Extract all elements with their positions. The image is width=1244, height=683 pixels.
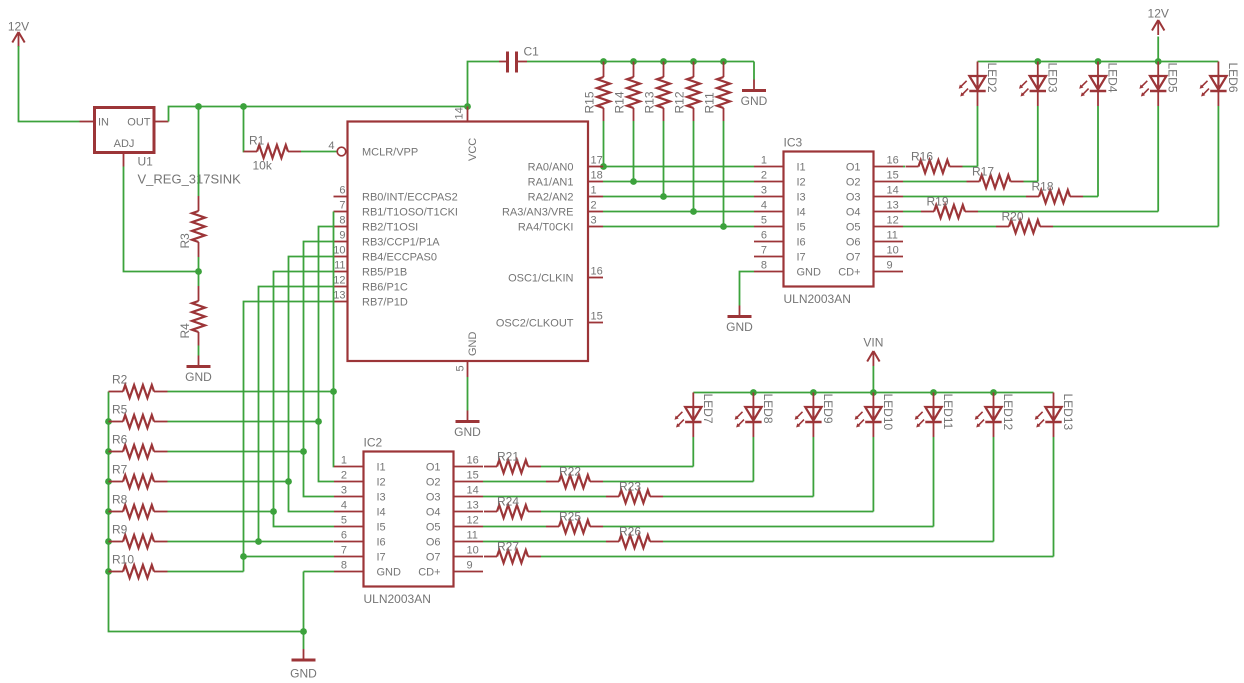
svg-text:9: 9 [339, 230, 345, 242]
wire R17 to LED3 [1024, 181, 1038, 183]
wire RB5 to IC2 I5 [274, 272, 335, 527]
svg-text:RB7/P1D: RB7/P1D [362, 297, 408, 309]
wire PIC GND pin [467, 377, 469, 411]
junction bottom rail [870, 389, 877, 396]
junction R6/RB3 [300, 448, 307, 455]
supply +12V (top right) [1148, 7, 1169, 36]
wire IC3 O4 to R19 [903, 211, 921, 213]
junction bottom rail [810, 389, 817, 396]
wire IC2 output to R26 [483, 541, 606, 543]
svg-text:15: 15 [591, 311, 603, 323]
junction rail R12 [690, 58, 697, 65]
wire RA0 row to IC3 [603, 166, 754, 168]
wire IC3 O3 to R18 [903, 196, 1026, 198]
svg-text:8: 8 [339, 215, 345, 227]
svg-text:GND: GND [741, 94, 768, 108]
wire LED6 cathode [1217, 106, 1219, 227]
svg-text:I7: I7 [797, 252, 806, 264]
svg-text:R15: R15 [583, 91, 597, 113]
junction left bus [105, 508, 112, 515]
svg-text:14: 14 [467, 485, 479, 497]
svg-text:RB3/CCP1/P1A: RB3/CCP1/P1A [362, 237, 440, 249]
wire 12V to U1 IN [19, 46, 80, 122]
resistor R24 [484, 495, 541, 519]
svg-text:I1: I1 [797, 162, 806, 174]
wire VIN to LED rail [872, 366, 874, 393]
svg-text:12V: 12V [1148, 7, 1169, 21]
wire R4 to ground [198, 346, 200, 356]
wire LED8 cathode [752, 437, 754, 482]
wire R23 to LED [663, 496, 813, 498]
driver IC3 ULN2003AN [754, 136, 903, 307]
svg-text:13: 13 [333, 290, 345, 302]
wire R13 to row [663, 121, 665, 197]
junction VCC / C1 [464, 103, 471, 110]
wire R10 row [168, 571, 244, 573]
junction ADJ node [195, 268, 202, 275]
svg-text:5: 5 [761, 215, 767, 227]
svg-text:R4: R4 [178, 323, 192, 339]
wire LED11 cathode [933, 437, 935, 527]
wire RA2 row to IC3 [603, 196, 754, 198]
svg-text:O1: O1 [426, 462, 441, 474]
LED11 [915, 393, 955, 438]
svg-text:I3: I3 [377, 492, 386, 504]
ground below IC3 [726, 306, 753, 335]
svg-text:17: 17 [591, 155, 603, 167]
svg-text:9: 9 [467, 560, 473, 572]
svg-text:10: 10 [333, 245, 345, 257]
wire R10 row up to RB7 node [243, 557, 245, 572]
driver IC2 ULN2003AN [334, 436, 483, 607]
capacitor C1 [499, 45, 539, 73]
svg-text:LED13: LED13 [1061, 394, 1075, 431]
svg-text:14: 14 [887, 185, 899, 197]
wire trunk to R1 [243, 107, 246, 152]
svg-text:O1: O1 [846, 162, 861, 174]
svg-text:RA1/AN1: RA1/AN1 [528, 177, 574, 189]
wire R6 row [168, 451, 304, 453]
svg-text:RA2/AN2: RA2/AN2 [528, 192, 574, 204]
svg-text:R27: R27 [497, 540, 519, 554]
svg-text:12: 12 [887, 215, 899, 227]
svg-text:R9: R9 [112, 523, 128, 537]
svg-text:1: 1 [761, 155, 767, 167]
svg-text:R12: R12 [673, 91, 687, 113]
resistor R15 [583, 62, 611, 122]
svg-text:R14: R14 [613, 91, 627, 113]
svg-text:R13: R13 [643, 91, 657, 113]
svg-text:R18: R18 [1032, 180, 1054, 194]
wire IC3 O1 to R16 [903, 166, 905, 168]
svg-text:R19: R19 [927, 195, 949, 209]
wire RA1 row to IC3 [603, 181, 754, 183]
svg-text:IC3: IC3 [784, 136, 803, 150]
svg-text:ULN2003AN: ULN2003AN [364, 592, 431, 606]
svg-text:I3: I3 [797, 192, 806, 204]
svg-text:2: 2 [341, 470, 347, 482]
resistor R1 10k [244, 134, 302, 173]
svg-text:C1: C1 [524, 45, 540, 59]
LED5 [1139, 62, 1179, 107]
resistor R26 [606, 525, 663, 549]
wire R22 to LED [603, 481, 753, 483]
LED8 [735, 393, 775, 438]
wire R8 row [168, 511, 274, 513]
svg-text:10: 10 [887, 245, 899, 257]
svg-text:O7: O7 [846, 252, 861, 264]
svg-text:3: 3 [341, 485, 347, 497]
junction R8/RB5 [270, 508, 277, 515]
wire RA4 row to IC3 [603, 226, 754, 228]
wire LED13 cathode [1053, 437, 1055, 557]
svg-text:CD+: CD+ [418, 567, 440, 579]
resistor R12 [673, 62, 701, 122]
svg-text:O4: O4 [426, 507, 441, 519]
wire R11 to row [723, 121, 725, 227]
junction top rail [1095, 58, 1102, 65]
junction R2/RB1 [330, 388, 337, 395]
wire IC3 GND to ground [740, 272, 755, 306]
svg-text:11: 11 [467, 530, 478, 542]
supply VIN [863, 336, 883, 367]
wire LED3 cathode [1037, 106, 1039, 182]
svg-text:O2: O2 [846, 177, 861, 189]
svg-text:ULN2003AN: ULN2003AN [784, 292, 851, 306]
svg-text:VIN: VIN [863, 336, 883, 350]
svg-text:VCC: VCC [467, 138, 479, 161]
svg-text:RB0/INT/ECCPAS2: RB0/INT/ECCPAS2 [362, 192, 458, 204]
svg-text:IN: IN [98, 117, 109, 129]
junction ground bus [300, 628, 307, 635]
junction top rail [1155, 58, 1162, 65]
svg-text:O3: O3 [426, 492, 441, 504]
svg-text:R16: R16 [911, 150, 933, 164]
resistor R4 [178, 286, 205, 346]
svg-text:GND: GND [467, 332, 479, 357]
wire LED5 cathode [1157, 106, 1159, 212]
wire RB6 to R9 row [259, 287, 334, 542]
wire LED9 cathode [812, 437, 814, 497]
svg-text:R22: R22 [559, 465, 581, 479]
wire RA3 row to IC3 [603, 211, 754, 213]
svg-text:R7: R7 [112, 463, 128, 477]
junction R10/RB7 [240, 553, 247, 560]
junction left bus [105, 418, 112, 425]
wire VCC to C1 [468, 62, 500, 107]
svg-text:R23: R23 [619, 480, 641, 494]
resistor R21 [484, 450, 541, 474]
junction rail R11 [720, 58, 727, 65]
junction R15 row [600, 163, 607, 170]
svg-text:O3: O3 [846, 192, 861, 204]
svg-text:LED11: LED11 [941, 394, 955, 430]
svg-text:6: 6 [761, 230, 767, 242]
resistor R22 [546, 465, 603, 489]
LED9 [795, 393, 835, 438]
junction bottom rail [750, 389, 757, 396]
svg-text:6: 6 [341, 530, 347, 542]
svg-text:RB6/P1C: RB6/P1C [362, 282, 408, 294]
svg-text:13: 13 [887, 200, 899, 212]
svg-text:I5: I5 [377, 522, 386, 534]
wire IC3 O2 to R17 [903, 181, 967, 183]
LED12 [975, 393, 1015, 438]
svg-text:1: 1 [341, 455, 347, 467]
junction R7/RB4 [285, 478, 292, 485]
ground below PIC [454, 411, 481, 440]
svg-text:8: 8 [341, 560, 347, 572]
wire top LED rail [978, 61, 1219, 63]
wire R3 to R4 node [198, 257, 200, 286]
svg-text:8: 8 [761, 260, 767, 272]
junction left bus [105, 448, 112, 455]
wire U1 ADJ to R3/R4 node [124, 167, 199, 272]
resistor R18 [1026, 180, 1083, 204]
wire bottom LED rail [693, 392, 1053, 394]
svg-text:3: 3 [761, 185, 767, 197]
svg-text:R5: R5 [112, 403, 128, 417]
svg-text:R21: R21 [497, 450, 519, 464]
svg-text:O6: O6 [426, 537, 441, 549]
wire 12V to LED rail [1157, 37, 1159, 62]
svg-text:13: 13 [467, 500, 479, 512]
svg-text:RB4/ECCPAS0: RB4/ECCPAS0 [362, 252, 437, 264]
LED3 [1019, 62, 1059, 107]
svg-text:R8: R8 [112, 493, 128, 507]
wire LED7 cathode [692, 437, 694, 467]
microcontroller IC1 PIC [328, 107, 603, 378]
svg-text:I4: I4 [377, 507, 386, 519]
junction left bus [105, 568, 112, 575]
svg-text:GND: GND [797, 267, 822, 279]
wire U1 OUT to VCC trunk [169, 107, 468, 122]
svg-text:LED6: LED6 [1226, 63, 1240, 93]
svg-text:O5: O5 [426, 522, 441, 534]
ground top rail [741, 80, 768, 109]
svg-text:R17: R17 [972, 165, 994, 179]
svg-text:12: 12 [333, 275, 345, 287]
svg-text:RA4/T0CKI: RA4/T0CKI [518, 222, 574, 234]
svg-text:15: 15 [467, 470, 479, 482]
wire left bus [109, 392, 304, 632]
svg-text:12: 12 [467, 515, 479, 527]
svg-text:16: 16 [887, 155, 899, 167]
wire R21 to LED [541, 466, 693, 468]
svg-text:LED4: LED4 [1106, 63, 1120, 93]
svg-text:16: 16 [467, 455, 479, 467]
svg-text:3: 3 [591, 215, 597, 227]
wire R5 row [168, 421, 319, 423]
resistor R3 [178, 196, 205, 257]
wire R1 to MCLR pin 4 [301, 151, 337, 153]
wire LED2 cathode [977, 106, 979, 167]
svg-text:R24: R24 [497, 495, 519, 509]
ground bottom [290, 649, 317, 681]
svg-text:I2: I2 [377, 477, 386, 489]
LED4 [1079, 62, 1119, 107]
wire R12 to row [693, 121, 695, 212]
junction rail R15 [600, 58, 607, 65]
svg-text:2: 2 [761, 170, 767, 182]
svg-text:4: 4 [341, 500, 347, 512]
wire R27 to LED [541, 556, 1054, 558]
svg-text:14: 14 [454, 107, 466, 119]
junction left bus [105, 478, 112, 485]
junction R3 branch [195, 103, 202, 110]
resistor R6 [109, 433, 168, 459]
svg-text:LED7: LED7 [701, 394, 715, 424]
svg-text:4: 4 [761, 200, 767, 212]
svg-text:R1: R1 [249, 134, 265, 148]
wire R14 to row [633, 121, 635, 182]
svg-text:RA3/AN3/VRE: RA3/AN3/VRE [502, 207, 574, 219]
svg-text:GND: GND [185, 370, 212, 384]
LED10 [855, 393, 895, 438]
wire R19 to LED5 [978, 211, 1158, 213]
wire R2 row [168, 391, 334, 393]
svg-text:I2: I2 [797, 177, 806, 189]
wire LED12 cathode [993, 437, 995, 542]
svg-text:R6: R6 [112, 433, 128, 447]
svg-text:R20: R20 [1002, 210, 1024, 224]
svg-text:LED10: LED10 [881, 394, 895, 431]
svg-text:11: 11 [334, 260, 345, 272]
junction R9/RB6 [255, 538, 262, 545]
svg-text:6: 6 [339, 185, 345, 197]
wire IC2 output to R25 [483, 526, 546, 528]
svg-text:GND: GND [290, 667, 317, 681]
junction bottom rail [990, 389, 997, 396]
junction rail R13 [660, 58, 667, 65]
wire R18 to LED4 [1083, 196, 1098, 198]
svg-text:I5: I5 [797, 222, 806, 234]
svg-text:O4: O4 [846, 207, 861, 219]
resistor R17 [967, 165, 1024, 189]
svg-text:O2: O2 [426, 477, 441, 489]
LED13 [1035, 393, 1075, 438]
svg-text:LED3: LED3 [1045, 63, 1059, 93]
svg-text:R11: R11 [703, 92, 717, 113]
svg-text:7: 7 [341, 545, 347, 557]
junction R5/RB2 [315, 418, 322, 425]
svg-text:RB2/T1OSI: RB2/T1OSI [362, 222, 418, 234]
svg-text:7: 7 [761, 245, 767, 257]
svg-text:R3: R3 [178, 233, 192, 249]
wire R24 to LED [541, 511, 873, 513]
wire VCC trunk down to R3 [198, 107, 200, 197]
svg-text:LED12: LED12 [1001, 394, 1015, 431]
resistor R9 [109, 523, 168, 549]
svg-text:ADJ: ADJ [114, 138, 135, 150]
svg-text:LED5: LED5 [1166, 63, 1180, 93]
svg-text:U1: U1 [138, 155, 154, 169]
svg-text:R26: R26 [619, 525, 641, 539]
junction left bus [105, 538, 112, 545]
svg-text:5: 5 [455, 365, 467, 371]
wire IC3 O5 to R20 [903, 226, 996, 228]
svg-text:I4: I4 [797, 207, 806, 219]
svg-text:OSC1/CLKIN: OSC1/CLKIN [508, 273, 573, 285]
wire R25 to LED [603, 526, 934, 528]
wire R26 to LED [663, 541, 994, 543]
resistor R2 [109, 373, 168, 399]
resistor R25 [546, 510, 603, 534]
wire RB4 to IC2 I4 [289, 257, 335, 512]
resistor R11 [703, 62, 731, 122]
svg-text:R10: R10 [112, 553, 134, 567]
svg-text:11: 11 [887, 230, 898, 242]
supply +12V (top left) [8, 20, 29, 48]
wire RB3 to IC2 I3 [304, 242, 335, 497]
svg-text:OUT: OUT [127, 117, 151, 129]
svg-text:RB1/T1OSO/T1CKI: RB1/T1OSO/T1CKI [362, 207, 458, 219]
junction top rail [1034, 58, 1041, 65]
resistor R20 [996, 210, 1053, 234]
resistor R14 [613, 62, 641, 122]
junction rail R14 [630, 58, 637, 65]
resistor R8 [109, 493, 168, 519]
svg-text:RB5/P1B: RB5/P1B [362, 267, 407, 279]
wire R9 row [168, 541, 334, 543]
junction bottom rail [930, 389, 937, 396]
svg-text:O6: O6 [846, 237, 861, 249]
wire RB2 to IC2 I2 [319, 227, 335, 482]
svg-text:15: 15 [887, 170, 899, 182]
resistor R10 [109, 553, 168, 579]
svg-text:GND: GND [454, 425, 481, 439]
wire pull-up rail [527, 61, 754, 63]
wire LED4 cathode [1097, 106, 1099, 197]
junction R1 branch [240, 103, 247, 110]
svg-text:LED9: LED9 [821, 394, 835, 424]
voltage regulator U1 V_REG_317SINK [80, 108, 242, 187]
svg-text:5: 5 [341, 515, 347, 527]
svg-text:R2: R2 [112, 373, 128, 387]
svg-text:GND: GND [726, 320, 753, 334]
svg-text:MCLR/VPP: MCLR/VPP [362, 147, 418, 159]
svg-text:9: 9 [887, 260, 893, 272]
svg-text:I6: I6 [797, 237, 806, 249]
svg-text:I7: I7 [377, 552, 386, 564]
svg-text:RA0/AN0: RA0/AN0 [528, 162, 574, 174]
resistor R16 [906, 150, 963, 174]
wire RB7 to IC2 I7 [244, 302, 335, 557]
svg-text:CD+: CD+ [838, 267, 860, 279]
svg-text:R25: R25 [559, 510, 581, 524]
resistor R23 [606, 480, 663, 504]
svg-text:LED2: LED2 [985, 63, 999, 93]
LED6 [1200, 62, 1240, 107]
resistor R7 [109, 463, 168, 489]
svg-text:IC2: IC2 [364, 436, 383, 450]
resistor R5 [109, 403, 168, 429]
svg-text:I6: I6 [377, 537, 386, 549]
wire bus to ground [303, 632, 305, 650]
svg-text:I1: I1 [377, 462, 386, 474]
LED7 [675, 393, 715, 438]
junction R14 row [630, 178, 637, 185]
wire R15 to row [603, 121, 605, 167]
wire IC2 output to R22 [483, 481, 546, 483]
svg-text:2: 2 [591, 200, 597, 212]
wire RB1 to IC2 I1 [333, 212, 336, 467]
wire R7 row [168, 481, 289, 483]
svg-text:OSC2/CLKOUT: OSC2/CLKOUT [496, 318, 574, 330]
svg-text:LED8: LED8 [761, 394, 775, 424]
svg-text:GND: GND [377, 567, 402, 579]
wire R20 to LED6 [1053, 226, 1218, 228]
